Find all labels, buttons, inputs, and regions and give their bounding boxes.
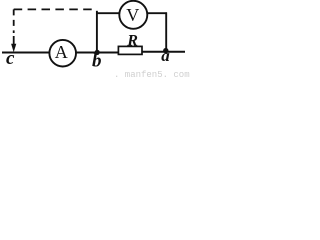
wire top left to voltmeter <box>96 12 119 14</box>
arrow shaft <box>13 36 15 46</box>
dashed line vertical <box>13 9 15 33</box>
wire ammeter to node b and on to resistor <box>76 52 119 54</box>
wire vertical from b up <box>96 11 98 53</box>
svg-text:. manfen5. com: . manfen5. com <box>114 70 190 80</box>
node a junction dot <box>163 48 168 53</box>
svg-text:V: V <box>126 5 139 25</box>
svg-text:a: a <box>161 46 170 65</box>
node b junction dot <box>95 50 100 55</box>
dashed line horizontal <box>14 8 96 10</box>
svg-text:R: R <box>126 32 138 49</box>
arrowhead <box>11 44 16 52</box>
voltmeter V circle <box>119 1 147 29</box>
wire voltmeter to top right corner <box>148 12 168 14</box>
wire bottom left (terminal c to ammeter) <box>2 52 50 54</box>
wire resistor to node a and right end <box>142 51 185 53</box>
ammeter A circle <box>49 40 76 67</box>
svg-text:b: b <box>92 51 102 72</box>
wire vertical right down to a <box>165 12 167 51</box>
svg-text:A: A <box>55 42 68 62</box>
resistor R box <box>118 46 142 54</box>
